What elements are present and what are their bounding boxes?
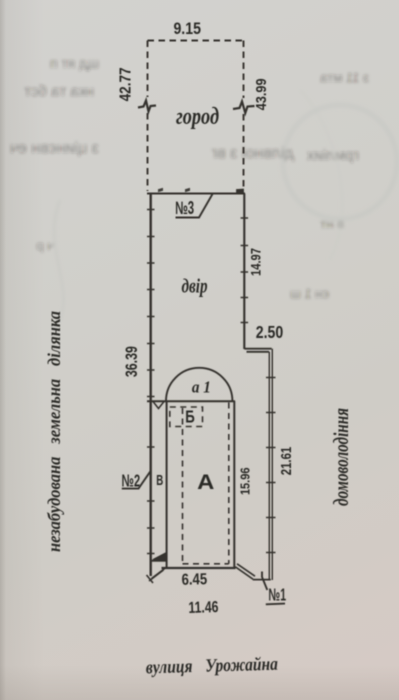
break mark on left dashed boundary xyxy=(138,101,156,112)
svg-text:город: город xyxy=(176,102,219,130)
house A: left wall xyxy=(166,401,168,568)
building top wall line xyxy=(147,400,235,402)
break mark on right dashed boundary xyxy=(233,102,255,114)
svg-text:21.61: 21.61 xyxy=(279,447,295,476)
svg-text:11.46: 11.46 xyxy=(188,599,219,617)
annex Б: dashed box xyxy=(170,407,203,427)
house A: bottom (street) wall xyxy=(162,567,236,569)
dashed boundary: left side of garden plot xyxy=(147,41,149,192)
svg-text:ділвноі з вг: ділвноі з вг xyxy=(211,145,294,162)
svg-text:домоволодіння: домоволодіння xyxy=(330,408,353,506)
svg-text:36.39: 36.39 xyxy=(122,346,141,377)
svg-text:незабудована земельна ділянка: незабудована земельна ділянка xyxy=(44,311,65,552)
svg-text:№1: №1 xyxy=(269,585,287,605)
svg-text:№3: №3 xyxy=(175,198,194,218)
svg-text:єн 1 ш: єн 1 ш xyxy=(290,286,329,301)
fence: right boundary upper (14.97) xyxy=(241,194,249,350)
svg-text:з 11 мта: з 11 мта xyxy=(320,70,369,85)
svg-text:9.15: 9.15 xyxy=(173,20,201,38)
faint bleed-through from reverse side (decorative) xyxy=(10,55,397,330)
fence: step segment (2.50), double line xyxy=(244,349,271,352)
filled pennant at bottom-left fence xyxy=(153,553,167,560)
svg-text:з ціинєвн еч: з ціинєвн еч xyxy=(10,140,99,157)
gate No1 area: double diagonal at bottom-right xyxy=(235,564,270,580)
svg-text:Б: Б xyxy=(185,407,195,427)
underline of No2 xyxy=(122,471,151,488)
svg-text:а 1: а 1 xyxy=(192,379,211,397)
svg-text:2.50: 2.50 xyxy=(256,322,284,342)
dashed boundary: right side of garden plot xyxy=(243,41,245,192)
fence: right boundary lower (21.61), double line xyxy=(266,349,276,580)
cellar outline (dashed) inside house xyxy=(183,403,229,564)
svg-text:14.97: 14.97 xyxy=(249,248,264,276)
svg-text:нка та бст: нка та бст xyxy=(24,83,94,100)
svg-text:двір: двір xyxy=(182,274,208,297)
garage a1: arched front wall xyxy=(166,368,232,401)
leader line to No1 xyxy=(262,572,285,605)
wicket gate mark at top-left of building xyxy=(153,402,164,409)
svg-text:6.45: 6.45 xyxy=(181,571,207,589)
house A: right wall xyxy=(233,401,235,568)
svg-text:А: А xyxy=(197,471,214,494)
svg-text:№2: №2 xyxy=(122,471,141,491)
gate at bottom-left (double diagonal) xyxy=(147,561,167,583)
dashed boundary: top side of garden plot (9.15) xyxy=(148,40,244,42)
svg-text:вулиця Урожайна: вулиця Урожайна xyxy=(146,653,279,677)
svg-text:15.96: 15.96 xyxy=(237,468,252,496)
svg-text:щд ят п: щд ят п xyxy=(50,55,99,71)
gate No3 leader line xyxy=(176,194,213,218)
svg-text:ч р: ч р xyxy=(36,238,54,253)
svg-text:42.77: 42.77 xyxy=(118,67,135,101)
svg-text:В: В xyxy=(156,472,163,489)
svg-text:43.99: 43.99 xyxy=(253,78,270,110)
fence: top boundary of yard (north side) xyxy=(147,189,245,194)
fence: left boundary (west side, 36.39) xyxy=(147,194,155,577)
